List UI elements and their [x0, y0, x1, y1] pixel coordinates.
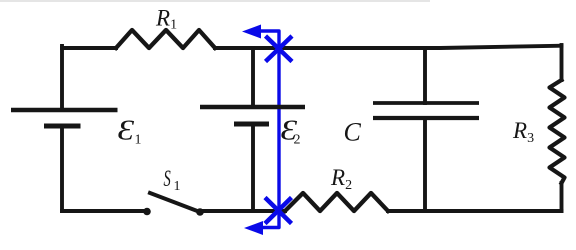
switch S1 right contact dot [196, 208, 204, 216]
wire C branch lower [423, 118, 427, 211]
wire E2 branch lower [251, 125, 255, 211]
resistor R3 [550, 80, 565, 183]
svg-text:S: S [164, 167, 172, 192]
switch S1 blade [150, 193, 200, 212]
capacitor C bottom plate [373, 116, 479, 120]
wire top middle-right [215, 46, 562, 48]
wire bottom E2 to R2 [253, 209, 285, 213]
resistor R2 [285, 193, 388, 211]
blue X cross bottom [265, 198, 292, 224]
switch S1 left contact dot [143, 208, 151, 216]
svg-text:1: 1 [135, 133, 142, 148]
blue vertical line with top and bottom bends [258, 31, 279, 228]
blue X cross top [266, 36, 293, 62]
wire E2 branch upper [251, 48, 255, 106]
wire right branch upper [560, 45, 564, 80]
battery E2 short plate [234, 122, 269, 127]
battery E1 short plate [44, 124, 81, 129]
svg-text:1: 1 [174, 179, 181, 194]
wire top-left horizontal [62, 46, 116, 50]
wire left branch upper [60, 46, 64, 108]
blue top arrowhead [242, 25, 261, 39]
blue loop line (under wires) [258, 31, 279, 228]
resistor R1 [116, 30, 215, 48]
wire right branch lower [560, 183, 564, 211]
wire bottom-left [62, 209, 146, 213]
wire switch to E2 branch [200, 209, 253, 213]
battery E2 long plate [200, 105, 305, 109]
svg-text:Ɛ: Ɛ [118, 114, 135, 146]
wire C branch upper [423, 48, 427, 103]
blue bottom arrowhead [244, 221, 263, 235]
wire left branch lower [60, 127, 64, 211]
blue X crosses (over wires) [265, 36, 292, 224]
wire bottom R2 to right [388, 209, 562, 213]
svg-text:C: C [344, 118, 362, 147]
battery E1 long plate [11, 108, 118, 113]
capacitor C top plate [373, 101, 479, 105]
svg-text:2: 2 [294, 133, 301, 148]
scan artifact top streak [0, 0, 430, 2]
